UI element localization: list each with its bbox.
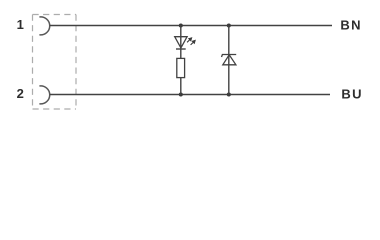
LED D1 cathode bar <box>176 48 186 50</box>
svg-text:BN: BN <box>340 17 361 32</box>
svg-text:BU: BU <box>341 87 362 102</box>
LED D1 triangle <box>175 37 187 48</box>
socket contact pin 1 <box>39 17 49 35</box>
wire: LED branch upper segment <box>180 26 182 50</box>
svg-text:2: 2 <box>17 86 24 101</box>
node: top rail / LED branch junction <box>179 24 183 28</box>
LED D1 light arrow 2 <box>191 41 196 45</box>
connector housing (dashed outline) <box>33 15 77 110</box>
wire: top rail (pin 1 to BN) <box>50 25 332 27</box>
node: bottom rail / Z-diode branch junction <box>227 93 231 97</box>
wire: LED to resistor segment <box>180 49 182 58</box>
Z-diode D2 cathode bar with zener tick <box>222 55 237 58</box>
Z-diode D2 triangle <box>223 55 236 65</box>
wire: resistor to bottom rail segment <box>180 78 182 95</box>
node: top rail / Z-diode branch junction <box>227 24 231 28</box>
LED D1 light arrow 1 <box>187 38 192 42</box>
wire: Z-diode branch vertical <box>228 26 230 95</box>
wire: bottom rail (pin 2 to BU) <box>50 94 330 96</box>
resistor R1 <box>177 58 185 77</box>
socket contact pin 2 <box>39 86 49 104</box>
node: bottom rail / LED branch junction <box>179 93 183 97</box>
svg-text:1: 1 <box>17 17 24 32</box>
